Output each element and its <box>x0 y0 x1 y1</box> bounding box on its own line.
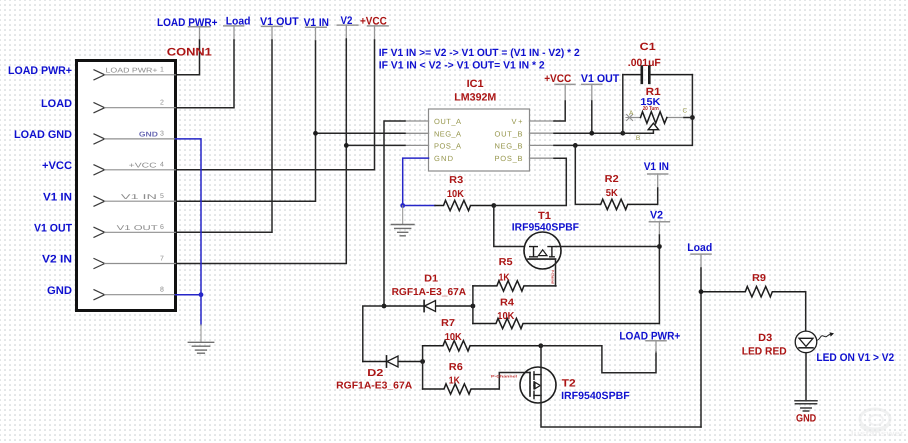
svg-text:6: 6 <box>160 224 164 231</box>
resistor R6 body <box>423 384 499 394</box>
wire D2 node to R7/R6 <box>422 346 424 389</box>
ground symbol below IC <box>391 206 414 236</box>
svg-text:R7: R7 <box>441 318 455 329</box>
port LOAD PWR+ (right) <box>619 331 680 352</box>
wire OUT_A to D1 anode node <box>384 121 429 306</box>
connector pin 2 <box>94 100 176 113</box>
wire net V2 vertical to pin7 <box>176 39 347 264</box>
svg-text:Load: Load <box>687 242 712 254</box>
op-amp U1 LM392M body <box>429 109 530 171</box>
port V2 (top) <box>337 15 358 39</box>
svg-text:OUT_A: OUT_A <box>434 117 462 126</box>
svg-text:7: 7 <box>160 255 164 262</box>
svg-text:V1 IN: V1 IN <box>121 194 157 201</box>
wire T2 drain vertical <box>541 346 701 427</box>
diode D1 body <box>384 300 473 311</box>
svg-text:R6: R6 <box>449 362 463 373</box>
port V1 IN (top) <box>304 17 329 41</box>
svg-text:RGF1A-E3_67A: RGF1A-E3_67A <box>392 287 467 298</box>
svg-text:V1 IN: V1 IN <box>43 191 72 203</box>
svg-text:A: A <box>629 110 634 117</box>
port +VCC (top) <box>360 16 388 40</box>
wire POS_A to V2 net <box>346 144 428 146</box>
wire net LOAD PWR+ to pin1 <box>176 40 200 75</box>
svg-text:RGF1A-E3_67A: RGF1A-E3_67A <box>336 381 412 392</box>
svg-text:V1 OUT: V1 OUT <box>581 73 620 85</box>
ground symbol below connector <box>188 325 213 354</box>
svg-text:4: 4 <box>160 162 164 169</box>
svg-text:GND: GND <box>139 132 158 139</box>
wire IC GND pin to ground (blue) <box>403 158 429 205</box>
wire D1 node to R5/R4 <box>472 286 474 324</box>
wire blue R3 left lead <box>403 205 435 207</box>
resistor R3 body <box>435 200 494 210</box>
transistor Q1 T1 body <box>524 232 561 269</box>
connector pin 8 <box>94 287 176 300</box>
resistor R5 body <box>473 281 556 291</box>
connector pin 1 LOAD PWR+ <box>94 67 176 80</box>
wire LED to ground <box>805 353 807 401</box>
connector CONN1 body <box>77 61 176 311</box>
svg-text:+VCC: +VCC <box>544 73 571 85</box>
capacitor C1 body <box>623 67 693 83</box>
svg-text:LM392M: LM392M <box>454 92 496 104</box>
port Load (right) <box>687 242 712 268</box>
svg-text:.001uF: .001uF <box>628 57 662 69</box>
svg-text:B: B <box>636 135 640 142</box>
svg-text:V1 OUT: V1 OUT <box>117 225 159 232</box>
svg-text:P-Channel: P-Channel <box>551 270 555 284</box>
svg-text:POS_A: POS_A <box>434 142 462 151</box>
wire C1 left to OUT_B node <box>622 75 624 134</box>
wire net +VCC vertical to pin4 <box>176 40 375 170</box>
resistor R9 body <box>701 287 805 297</box>
wire POS_B to R3 node <box>494 158 567 205</box>
svg-text:IRF9540SPBF: IRF9540SPBF <box>561 390 630 402</box>
svg-text:2: 2 <box>160 100 164 107</box>
resistor R7 body <box>423 341 541 351</box>
svg-text:T1: T1 <box>538 210 551 222</box>
svg-text:3: 3 <box>160 131 164 138</box>
junction pin8/GND <box>199 292 204 297</box>
wire NEG_B node down to R2 <box>575 145 600 204</box>
svg-text:GND: GND <box>47 285 72 297</box>
junction OUT_B / C1 / wiper <box>620 131 625 136</box>
svg-text:V2 IN: V2 IN <box>42 254 72 266</box>
wire node to T1 source <box>494 206 525 247</box>
svg-text:+VCC: +VCC <box>129 163 157 170</box>
resistor R4 body <box>473 318 659 328</box>
svg-text:IC1: IC1 <box>467 78 484 90</box>
svg-text:R5: R5 <box>499 257 513 268</box>
svg-text:C1: C1 <box>640 41 656 53</box>
resistor R2 body <box>600 199 657 209</box>
wire T1 drain to V2 <box>556 246 659 248</box>
connector pin 4 +VCC <box>94 162 176 175</box>
junction D1 cathode / OUT_A <box>382 304 387 309</box>
svg-text:T2: T2 <box>562 378 576 390</box>
svg-text:D1: D1 <box>424 273 438 284</box>
svg-text:5: 5 <box>160 193 164 200</box>
junction R3 right / POS_B / T1 branch <box>491 203 496 208</box>
potentiometer R1 body <box>623 112 693 134</box>
wire net Load to pin2 <box>176 40 235 108</box>
ground symbol below LED <box>795 401 817 411</box>
svg-text:GND: GND <box>434 154 454 163</box>
wire GND blue net pin3 down past pin8 <box>176 139 202 325</box>
svg-text:Justanswer: Justanswer <box>848 429 904 438</box>
wire OUT_B to C1/R1 wiper node <box>530 132 623 134</box>
wire V1 OUT port down to OUT_B net <box>591 101 593 133</box>
svg-text:LED RED: LED RED <box>742 346 787 358</box>
svg-text:V+: V+ <box>512 117 524 126</box>
svg-text:OUT_B: OUT_B <box>495 129 524 138</box>
junction D2 anode / R7 R6 <box>420 359 425 364</box>
junction Load / R9 <box>699 289 704 294</box>
port V1 OUT (top) <box>260 16 299 40</box>
wire V+ pin to +VCC port <box>530 101 566 121</box>
port LOAD PWR+ (top) <box>157 17 218 40</box>
svg-text:8: 8 <box>160 287 164 294</box>
svg-text:GND: GND <box>796 412 817 424</box>
svg-text:D2: D2 <box>367 368 384 379</box>
wire net V1 OUT to pin6 <box>176 40 273 232</box>
connector pin 5 V1 IN <box>94 193 176 206</box>
svg-text:C: C <box>683 107 688 114</box>
svg-text:NEG_A: NEG_A <box>434 129 462 138</box>
diode D2 body <box>363 356 423 367</box>
svg-text:LOAD: LOAD <box>41 98 72 110</box>
connector pin 3 GND <box>94 131 176 144</box>
port V1 IN (right) <box>644 161 669 188</box>
svg-text:V1 OUT: V1 OUT <box>34 223 72 235</box>
svg-text:R3: R3 <box>449 175 463 186</box>
svg-text:POS_B: POS_B <box>495 154 524 163</box>
wire NEG_A to V1 IN net <box>316 132 429 134</box>
wire R6 to T2 gate <box>499 373 530 390</box>
svg-text:LOAD PWR+: LOAD PWR+ <box>106 68 158 75</box>
svg-text:NEG_B: NEG_B <box>495 142 524 151</box>
wire D1 row to D2 column <box>363 306 384 362</box>
junction POS_A / V2 <box>344 143 349 148</box>
svg-text:LOAD GND: LOAD GND <box>14 129 72 141</box>
junction OUT_B / V1 OUT <box>589 131 594 136</box>
wire Load port down to T2 bottom <box>700 268 702 427</box>
svg-text:LOAD PWR+: LOAD PWR+ <box>8 65 72 77</box>
svg-text:R2: R2 <box>605 174 619 185</box>
connector pin 7 <box>94 255 176 268</box>
svg-text:R9: R9 <box>752 273 766 284</box>
wire T1 gate to R5 <box>555 259 557 286</box>
junction NEG_B / R2 branch <box>573 143 578 148</box>
svg-text:+VCC: +VCC <box>42 160 72 172</box>
svg-text:V1 IN: V1 IN <box>644 161 669 173</box>
junction D1 anode / R5 R4 <box>471 304 476 309</box>
port +VCC (at IC V+) <box>544 73 575 101</box>
transistor Q2 T2 body <box>520 367 556 403</box>
svg-text:10K: 10K <box>447 189 465 200</box>
watermark <box>848 409 904 438</box>
wire net V1 IN vertical to pin5 <box>176 41 316 201</box>
junction V2 / T1 drain <box>657 244 662 249</box>
port V2 (right) <box>649 210 669 235</box>
svg-text:IF V1 IN < V2 -> V1 OUT= V1 IN: IF V1 IN < V2 -> V1 OUT= V1 IN * 2 <box>379 60 545 72</box>
svg-text:CONN1: CONN1 <box>167 47 212 59</box>
svg-text:R4: R4 <box>500 298 514 309</box>
junction R7 / T2 drain / LOAD PWR+ <box>538 343 543 348</box>
junction R1 C terminal <box>690 115 695 120</box>
port Load (top) <box>224 16 251 40</box>
svg-text:IF V1 IN >= V2 -> V1 OUT = (V1: IF V1 IN >= V2 -> V1 OUT = (V1 IN - V2) … <box>379 47 580 59</box>
svg-text:5K: 5K <box>606 188 619 199</box>
wire V1 IN port to R2 right <box>657 188 659 204</box>
svg-text:V2: V2 <box>650 210 663 222</box>
potentiometer R1 terminal A no-connect marker <box>626 115 633 121</box>
wire pin8 to GND net (blue) <box>176 294 202 296</box>
LED D3 body <box>795 331 834 353</box>
svg-text:D3: D3 <box>758 332 772 344</box>
connector pin 6 V1 OUT <box>94 224 176 237</box>
svg-text:P-Channel: P-Channel <box>491 374 517 378</box>
wire LOAD PWR+ jog <box>541 346 656 373</box>
junction NEG_A / V1 IN <box>313 131 318 136</box>
svg-text:1: 1 <box>160 67 164 74</box>
wire NEG_B to R1 terminal C / C1 right <box>530 75 693 146</box>
port V1 OUT (at OUT_B) <box>581 73 620 101</box>
svg-text:LED ON V1 > V2: LED ON V1 > V2 <box>816 352 894 364</box>
wire V2 net vertical down to R4 <box>658 235 660 324</box>
wire R9 to LED <box>805 292 807 331</box>
junction GND node (blue) <box>400 203 405 208</box>
